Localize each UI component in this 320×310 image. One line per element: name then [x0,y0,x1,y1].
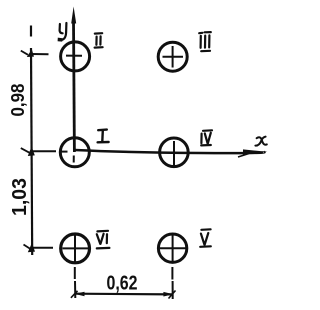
x-axis [75,150,264,153]
hole III label III [199,32,211,51]
hole I center dash left [62,151,68,153]
svg-text:0,62: 0,62 [107,272,138,294]
hole IV label IV [201,130,212,145]
y-axis arrowhead [71,7,76,24]
bottom extension line below hole V [171,267,173,299]
bottom extension line below hole VI [74,267,77,298]
left dimension line overshoot dash [30,26,32,37]
hole VI label VI [97,231,110,249]
hole IV center dash vertical [173,141,175,166]
dimension arrow bottom [24,243,36,252]
bottom dimension arrow right [163,291,175,299]
hole VI circle [61,234,90,263]
bottom dimension arrow left [71,291,85,298]
hole I label I [98,130,109,143]
bottom dimension line [76,293,173,296]
y-axis label y [58,23,67,42]
hole II center dash horizontal [66,55,82,57]
hole II circle [61,42,90,71]
hole I circle [60,138,89,167]
hole III circle [158,42,187,71]
hole VI crosshair [63,235,89,263]
extension line at x-axis level [32,150,56,152]
y-axis [72,20,76,152]
hole V crosshair [159,234,188,263]
hole V circle [158,234,186,262]
dimension arrows middle [21,146,35,156]
hole III crosshair [163,46,184,68]
x-axis label x [255,137,266,146]
left dimension line vertical [31,48,32,255]
dimension arrow top [21,49,34,57]
svg-text:0,98: 0,98 [8,84,28,117]
extension line at y of hole II [32,53,49,55]
svg-text:1,03: 1,03 [9,178,31,216]
hole II label II [95,33,103,47]
x-axis arrow barb [238,154,249,158]
hole I center dash below [73,156,75,163]
hole V label V [200,229,211,247]
extension line at y of hole VI [33,247,54,249]
x-axis arrowhead [243,149,268,154]
hole IV circle [160,138,189,167]
